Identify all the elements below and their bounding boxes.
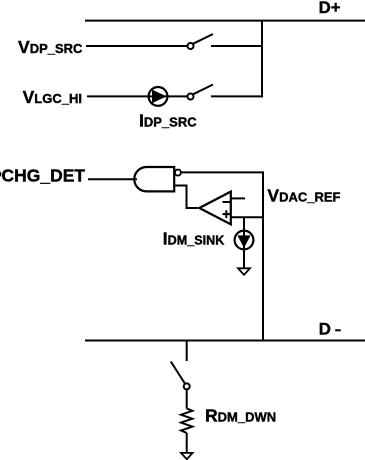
current source IDP_SRC arrow bbox=[152, 90, 167, 104]
wire VDP_SRC to switch S1 bbox=[86, 45, 188, 47]
current source IDP_SRC circle bbox=[149, 87, 168, 106]
wire switch S1 to bus bbox=[211, 45, 263, 47]
switch S3 blade bbox=[171, 362, 185, 384]
switch S1 blade bbox=[193, 34, 213, 44]
current sink IDM_SINK circle bbox=[235, 231, 254, 250]
current sink IDM_SINK arrow bbox=[237, 235, 250, 248]
wire bus from D+ down to switches bbox=[261, 21, 263, 98]
wire CHG_DET to gate U1 bbox=[88, 178, 137, 180]
ground arrow below resistor bbox=[181, 453, 193, 459]
switch S3 contact circle bbox=[184, 383, 190, 389]
switch S2 blade bbox=[193, 85, 213, 95]
wire switch S2 to bus bbox=[211, 95, 263, 97]
ground arrow below sink bbox=[238, 268, 250, 275]
wire D- rail bbox=[85, 340, 365, 342]
gate U1 (mirrored AND with bubble) bbox=[134, 167, 174, 191]
switch S2 contact circle bbox=[188, 94, 194, 100]
svg-text:D: D bbox=[319, 320, 331, 339]
wire D- down to switch S3 bbox=[186, 341, 188, 361]
comparator plus input lead to bus bbox=[231, 216, 263, 218]
wire U1 bubble to bus bbox=[181, 171, 264, 173]
svg-text:CHG_DET: CHG_DET bbox=[2, 166, 86, 186]
wire plus lead down to sink bbox=[243, 217, 245, 268]
wire VLGC_HI to current source bbox=[87, 95, 188, 97]
comparator plus sign bbox=[223, 213, 231, 215]
wire resistor to ground arrow bbox=[186, 433, 188, 453]
resistor RDM_DWN zigzag bbox=[181, 408, 192, 433]
wire switch S3 to resistor bbox=[186, 390, 188, 409]
switch S1 contact circle bbox=[188, 43, 194, 49]
wire D+ rail bbox=[85, 20, 365, 22]
wire bus VDAC node down to D- bbox=[262, 171, 264, 341]
comparator U2 triangle bbox=[199, 192, 231, 225]
wire U1 side to comparator output (step) bbox=[174, 186, 198, 209]
gate U1 output bubble bbox=[175, 170, 181, 176]
comparator minus sign bbox=[223, 201, 231, 203]
svg-text:D+: D+ bbox=[319, 0, 341, 17]
edge artifact blob bbox=[0, 171, 1, 177]
comparator minus input lead bbox=[231, 197, 245, 199]
